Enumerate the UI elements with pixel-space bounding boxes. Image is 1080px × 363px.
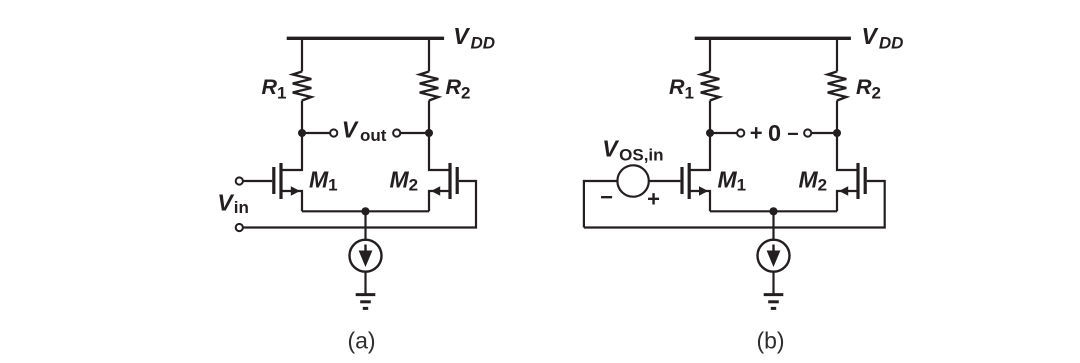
svg-text:−: − (600, 185, 613, 210)
ground (a) (356, 295, 376, 309)
terminal minus (b) (804, 129, 811, 136)
wire R2 to drain node M2 (a) (428, 101, 430, 134)
node tail (b) (769, 207, 777, 215)
wire M2 gate to corner (a) (243, 181, 476, 228)
terminal plus (b) (737, 129, 744, 136)
wire tail node to current source (b) (772, 211, 774, 240)
tail wire sources M1-M2 (a) (302, 210, 429, 212)
terminal Vin upper (a) (236, 177, 243, 184)
wire drain node M1 to plus terminal (b) (710, 132, 737, 134)
wire drain node M1 to Vout left terminal (a) (302, 132, 330, 134)
svg-text:(a): (a) (347, 328, 375, 354)
wire drain node M2 to Vout right terminal (a) (400, 132, 429, 134)
wire VDD rail to R1 (b) (709, 38, 711, 71)
resistor R2 (b) (828, 72, 847, 101)
terminal Vout right (a) (393, 129, 400, 136)
wire R1 to drain node M1 (b) (709, 101, 711, 134)
svg-text:(b): (b) (756, 328, 784, 354)
node tail (a) (361, 207, 369, 215)
transistor M1 (b) (682, 133, 710, 211)
wire VDD rail to R2 (a) (428, 38, 430, 71)
transistor M2 (a) (429, 133, 457, 211)
current source ISS (a) (350, 240, 382, 272)
wire R1 to drain node M1 (a) (301, 101, 303, 134)
transistor M1 (a) (274, 133, 302, 211)
ground (b) (764, 295, 784, 309)
svg-text:+: + (750, 121, 763, 146)
terminal Vout left (a) (330, 129, 337, 136)
terminal Vin lower (a) (236, 224, 243, 231)
node drain M1 (b) (706, 129, 714, 137)
node drain M1 (a) (298, 129, 306, 137)
wire drain node M2 to minus terminal (b) (811, 132, 837, 134)
current source ISS (b) (758, 240, 790, 272)
node drain M2 (b) (833, 129, 841, 137)
wire R2 to drain node M2 (b) (836, 101, 838, 134)
resistor R1 (b) (701, 72, 720, 101)
wire M2 gate to bottom return (b) (584, 181, 885, 228)
wire VOS,in to M1 gate (b) (649, 180, 681, 182)
wire VDD rail to R2 (b) (836, 38, 838, 71)
wire Vin upper terminal to M1 gate (a) (243, 180, 272, 182)
node drain M2 (a) (425, 129, 433, 137)
VDD rail (a) (287, 37, 444, 40)
VDD rail (b) (695, 37, 851, 40)
svg-text:−: − (787, 123, 799, 145)
transistor M2 (b) (837, 133, 865, 211)
wire VDD rail to R1 (a) (301, 38, 303, 71)
wire tail node to current source (a) (364, 211, 366, 240)
resistor R1 (a) (293, 72, 312, 101)
wire current source to ground (b) (772, 272, 774, 294)
svg-text:+: + (647, 186, 660, 211)
svg-text:0: 0 (768, 120, 781, 146)
wire VOS,in left lead to bottom corner (b) (584, 181, 618, 228)
resistor R2 (a) (420, 72, 439, 101)
voltage source VOS,in (b) (617, 165, 648, 196)
tail wire sources M1-M2 (b) (710, 210, 837, 212)
wire current source to ground (a) (364, 272, 366, 294)
